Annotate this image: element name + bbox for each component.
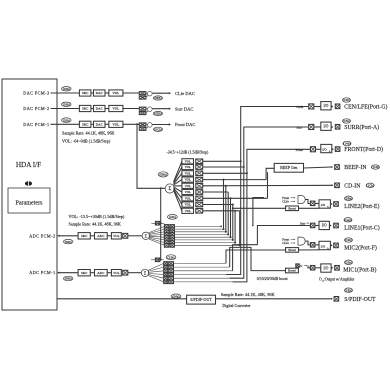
label mic select — [296, 264, 308, 268]
node (09h) stream id — [63, 239, 73, 243]
node (14h) — [343, 141, 351, 145]
svg-text:CLfe: CLfe — [282, 241, 289, 245]
pad BEEP-IN — [335, 165, 340, 170]
node (02h) stream id — [62, 118, 72, 122]
svg-text:(15h): (15h) — [343, 119, 350, 123]
node (03h) stream id — [62, 102, 72, 106]
block SRC dac3 — [79, 90, 91, 96]
mute switch LINE1 — [310, 223, 315, 228]
sum node CLfe DAC — [146, 91, 152, 97]
wire mixer fan 4 — [174, 180, 182, 185]
svg-text:I/O: I/O — [322, 224, 327, 228]
wire bus drop 1 — [223, 180, 225, 231]
wire arrow — [330, 244, 332, 246]
svg-text:I/O: I/O — [324, 125, 329, 129]
block VOL ADC PCM-1 — [111, 270, 121, 276]
mute switch mix9 — [196, 209, 203, 214]
record select 22h input 6 — [149, 237, 234, 242]
wire mixer fan 9 — [174, 190, 182, 211]
svg-text:(16h): (16h) — [343, 98, 350, 102]
svg-text:(0Ch): (0Ch) — [154, 127, 161, 131]
svg-text:BEEP Gen: BEEP Gen — [280, 165, 297, 170]
wire DAC PCM-3 to SRC — [51, 92, 80, 94]
wire fan row9 MIC1 feed — [203, 210, 240, 212]
block SRC dac2 — [79, 105, 91, 111]
svg-text:Surr: Surr — [296, 126, 303, 130]
wire to record selector — [128, 235, 142, 237]
svg-text:(22h): (22h) — [169, 215, 176, 219]
node (16h) — [343, 98, 351, 102]
mute switch ADC PCM-2 — [123, 233, 128, 238]
wire — [107, 235, 111, 237]
wire bus drop 4 — [230, 198, 232, 238]
block VOL ADC PCM-2 — [111, 233, 121, 239]
wire Front playback riser — [233, 149, 311, 282]
block SRC dac1 — [79, 121, 91, 127]
wire fan row4 to BEEP gen input — [203, 168, 275, 180]
block VOL mix1 — [182, 159, 194, 164]
mute switch mix8 — [196, 202, 203, 207]
mute switch pair Surr DAC — [139, 107, 146, 110]
node (1Ah) — [344, 218, 352, 222]
svg-text:VOL: VOL — [185, 171, 191, 175]
svg-text:DAC: DAC — [96, 91, 104, 95]
svg-text:VOL: VOL — [185, 196, 191, 200]
wire CLfe playback riser — [226, 107, 309, 275]
wire mixer fan 7 — [174, 188, 182, 198]
svg-text:LINE1(Port-C): LINE1(Port-C) — [344, 224, 379, 231]
wire mixer fan 8 — [174, 189, 182, 204]
node (0Bh) mixer id — [158, 172, 168, 177]
wire mixer fan 3 — [174, 173, 182, 184]
node (22h) record select id — [168, 215, 178, 220]
wire mixer fan 1 — [174, 161, 182, 182]
svg-text:(23h): (23h) — [168, 255, 175, 259]
wire fan row1 to CLfe riser — [203, 160, 242, 162]
wire MIC2 boost line — [286, 249, 319, 251]
wire — [314, 106, 321, 108]
pad SURR — [335, 125, 340, 130]
block VOL mix9 — [182, 208, 194, 213]
mixer 0Bh sum — [165, 184, 174, 193]
svg-text:ADC PCM-2: ADC PCM-2 — [29, 233, 55, 238]
wire — [315, 267, 321, 269]
block VOL mix5 — [182, 183, 194, 188]
wire DAC PCM-2 to SRC — [51, 108, 80, 110]
mute switch mix6 — [196, 190, 203, 195]
mute switch ADC PCM-1 — [123, 270, 128, 275]
svg-text:-34.5~+12dB (1.5dB/Step): -34.5~+12dB (1.5dB/Step) — [167, 151, 210, 155]
node (23h) record select id — [166, 255, 176, 260]
svg-text:LINE2(Port-E): LINE2(Port-E) — [344, 203, 379, 210]
svg-text:SRC: SRC — [81, 271, 88, 275]
wire mux out 2 — [305, 241, 310, 245]
block Boost LINE2 — [286, 206, 299, 211]
mux MIC2 monitor select — [298, 237, 305, 245]
wire fan row8 LINE2 feed — [203, 204, 234, 206]
svg-text:Σ: Σ — [168, 186, 171, 192]
block I/O Port-A — [321, 122, 331, 130]
wire fan row2 to Surr riser — [203, 166, 245, 168]
svg-text:A: A — [327, 206, 329, 209]
svg-text:VOL: VOL — [185, 209, 191, 213]
svg-text:ADC PCM-1: ADC PCM-1 — [29, 270, 55, 275]
wire — [315, 225, 319, 227]
block I/O Port-B — [321, 264, 331, 272]
node (0Eh) amp id — [153, 96, 162, 100]
node (19h) — [345, 238, 353, 242]
icon parameters eye — [25, 181, 32, 186]
svg-text:(08h): (08h) — [65, 277, 72, 281]
svg-text:VOL: -13.5~+30dB (1.5dB/Step): VOL: -13.5~+30dB (1.5dB/Step) — [69, 214, 125, 219]
block VOL dac1 — [109, 121, 123, 127]
svg-text:HDA I/F: HDA I/F — [16, 161, 41, 169]
svg-text:ADC: ADC — [97, 234, 105, 238]
wire fan row5 CD-IN line — [203, 185, 333, 187]
record select 23h input 6 — [148, 275, 242, 283]
svg-text:Front DAC: Front DAC — [175, 122, 195, 127]
wire bus drop 7 — [239, 211, 241, 247]
wire Front DAC tap into mixer — [136, 123, 165, 188]
wire — [90, 235, 94, 237]
svg-text::Output w/ Amplifier: :Output w/ Amplifier — [324, 277, 355, 281]
block SRC ADC PCM-1 — [78, 270, 90, 276]
wire — [315, 244, 319, 246]
svg-text:MIC2(Port-F): MIC2(Port-F) — [344, 245, 377, 252]
svg-text:(02h): (02h) — [63, 118, 70, 122]
wire — [105, 108, 109, 110]
svg-text:(14h): (14h) — [343, 142, 350, 146]
record select 22h input 5 — [149, 235, 232, 239]
mute switch mix4 — [196, 177, 203, 182]
svg-text:MIC1(Port-B): MIC1(Port-B) — [343, 266, 376, 273]
svg-text:VOL: VOL — [113, 271, 120, 275]
wire mixer fan 5 — [174, 185, 182, 187]
svg-text:SRC: SRC — [82, 123, 89, 127]
svg-text:VOL: VOL — [185, 159, 191, 163]
block ADC ADC PCM-1 — [95, 270, 108, 276]
svg-text:(18h): (18h) — [345, 261, 352, 265]
svg-text:ADC: ADC — [97, 271, 105, 275]
svg-text:0/10/20/30dB boost: 0/10/20/30dB boost — [257, 277, 289, 281]
svg-text:A: A — [329, 150, 331, 153]
mute switch CLfe out — [309, 104, 314, 109]
wire arrow to Surr DAC — [152, 108, 171, 110]
pad CEN/LFE — [335, 104, 340, 109]
mute switch mix1 — [196, 159, 203, 164]
svg-text:DAC PCM-1: DAC PCM-1 — [23, 122, 49, 127]
label CLfe mux input — [282, 200, 295, 204]
svg-text:I/O: I/O — [324, 104, 329, 108]
wire 23h row2 riser to MIC1 boost — [230, 247, 286, 270]
svg-text:(1Eh): (1Eh) — [345, 288, 353, 292]
svg-text:(1Ah): (1Ah) — [344, 218, 352, 222]
svg-text:Parameters: Parameters — [15, 201, 43, 207]
block DAC dac1 — [94, 121, 106, 127]
node (1Bh) — [345, 196, 353, 200]
block I/O-A Port-E — [319, 200, 330, 209]
label output amplifier note — [319, 277, 355, 282]
wire VOL to output mutes — [123, 108, 139, 110]
wire LINE1 input line — [257, 226, 310, 245]
wire bus drop 3 — [227, 192, 229, 236]
mute switch LINE2 — [310, 201, 315, 206]
record select 22h input 3 — [149, 230, 227, 235]
wire — [91, 123, 94, 125]
wire arrow — [332, 148, 334, 150]
svg-text:I/O: I/O — [322, 148, 327, 152]
svg-text:(06h): (06h) — [173, 294, 180, 298]
svg-text:Front: Front — [296, 148, 303, 152]
wire — [105, 123, 109, 125]
mute switch mix loopback 22h — [151, 221, 164, 225]
block VOL mix2 — [182, 164, 194, 169]
record select 23h input 5 — [148, 274, 239, 280]
wire arrow — [331, 126, 333, 128]
block HDA I/F host interface — [2, 79, 57, 310]
mute switch MIC2 — [310, 243, 315, 248]
wire 23h row3 riser — [233, 245, 258, 271]
wire — [91, 108, 94, 110]
block I/O Port-G — [321, 102, 331, 110]
node (1Dh) — [371, 165, 379, 169]
block VOL mix4 — [182, 177, 194, 182]
block VOL dac2 — [109, 105, 123, 111]
pad MIC2 — [334, 243, 339, 248]
block I/O Port-C — [319, 221, 329, 229]
node (0Dh) amp id — [153, 111, 162, 115]
wire — [316, 148, 321, 150]
block DAC dac3 — [94, 90, 106, 96]
svg-text:A: A — [327, 247, 329, 250]
pad FRONT — [335, 147, 340, 152]
mute switch mix3 — [196, 171, 203, 176]
block ADC ADC PCM-2 — [95, 233, 108, 239]
wire 23h row1 riser to MIC2 boost — [226, 250, 286, 263]
record select 22h input 8 — [149, 239, 241, 247]
svg-text:Surr DAC: Surr DAC — [175, 106, 193, 111]
node (06h) — [171, 294, 181, 298]
block VOL dac3 — [109, 90, 123, 96]
svg-text:VOL: VOL — [185, 190, 191, 194]
wire LINE2 mux feed riser — [252, 198, 264, 227]
node (18h) — [345, 260, 353, 264]
block I/O-A Port-F — [319, 241, 330, 250]
svg-text:VOL: VOL — [113, 234, 120, 238]
wire — [315, 203, 319, 205]
pad MIC1 — [335, 266, 340, 271]
svg-text:VOL: VOL — [185, 203, 191, 207]
block VOL mix3 — [182, 171, 194, 176]
record select 23h input 4 — [148, 273, 236, 276]
block Boost MIC1 — [286, 268, 299, 273]
pad LINE1 — [334, 223, 339, 228]
block SRC ADC PCM-2 — [78, 233, 90, 239]
label Surr mux input — [300, 221, 309, 225]
svg-text:Boost: Boost — [288, 269, 296, 273]
node (0Ch) amp id — [153, 127, 162, 131]
wire arrow — [331, 106, 333, 108]
mute switch Surr out — [309, 124, 314, 129]
label Front mux input — [282, 196, 295, 200]
svg-text:(1Dh): (1Dh) — [371, 165, 379, 169]
node (04h) stream id — [62, 87, 72, 91]
mixer 22h sum — [142, 232, 149, 239]
mute switch pair Front DAC — [139, 123, 146, 126]
pad S/PDIF-OUT — [334, 297, 339, 302]
svg-text:VOL: VOL — [112, 107, 119, 111]
record select 22h input 2 — [149, 227, 225, 233]
wire arrow — [329, 225, 331, 227]
svg-text:CLfe DAC: CLfe DAC — [175, 91, 195, 96]
svg-text:S/PDIF-OUT: S/PDIF-OUT — [190, 297, 212, 302]
pad CD-IN — [335, 183, 340, 188]
wire arrow to CLfe DAC — [152, 92, 171, 94]
block Parameters — [8, 188, 50, 213]
wire bus drop 6 — [234, 211, 236, 244]
wire mux out — [305, 200, 310, 204]
svg-text:CLfe: CLfe — [296, 105, 303, 109]
wire DAC PCM-1 to SRC — [51, 123, 80, 125]
record select 23h input 2 — [148, 265, 230, 271]
svg-text:VOL: VOL — [185, 165, 191, 169]
svg-text:DAC: DAC — [96, 123, 104, 127]
wire mixer fan 6 — [174, 187, 182, 192]
svg-text:SRC: SRC — [81, 234, 88, 238]
wire — [90, 272, 94, 274]
wire mixer fan 2 — [174, 167, 182, 183]
wire VOL to output mutes — [123, 92, 139, 94]
svg-text:BEEP-IN: BEEP-IN — [344, 165, 367, 171]
record select 23h input 1 — [148, 262, 226, 271]
label CLfe mux input 2 — [282, 241, 295, 245]
wire arrow — [330, 203, 332, 205]
mute switch mix7 — [196, 196, 203, 201]
mute switch mix5 — [196, 184, 203, 189]
svg-text:(0Dh): (0Dh) — [154, 112, 161, 116]
svg-text:I/O: I/O — [321, 245, 326, 249]
mute switch MIC1 — [310, 266, 315, 271]
wire arrow into ADC PCM-1 — [57, 272, 78, 274]
mixer 23h sum — [141, 269, 148, 276]
wire — [107, 272, 111, 274]
svg-text:VOL: VOL — [185, 178, 191, 182]
mute switch pair CLfe DAC — [139, 92, 146, 95]
svg-text:(09h): (09h) — [65, 240, 72, 244]
svg-text:(04h): (04h) — [63, 87, 70, 91]
wire SPDIF line — [57, 298, 332, 300]
wire bus drop 5 — [232, 205, 234, 241]
svg-text:CEN/LFE(Port-G): CEN/LFE(Port-G) — [344, 103, 387, 110]
mute switch mix loopback 23h — [151, 258, 164, 262]
block VOL mix8 — [182, 202, 194, 207]
svg-text:DAC PCM-2: DAC PCM-2 — [23, 106, 49, 111]
block DAC dac2 — [94, 105, 106, 111]
wire Surr playback riser — [230, 127, 309, 278]
block BEEP Gen — [274, 163, 303, 172]
svg-text:CLfe: CLfe — [282, 200, 289, 204]
block Boost MIC2 — [286, 248, 299, 253]
svg-text:S/PDIF-OUT: S/PDIF-OUT — [344, 297, 376, 303]
node (15h) — [343, 119, 351, 123]
svg-text:FRONT(Port-D): FRONT(Port-D) — [344, 146, 383, 153]
svg-text:SRC: SRC — [82, 91, 89, 95]
svg-text:VOL: VOL — [112, 91, 119, 95]
svg-text:VOL: VOL — [112, 123, 119, 127]
svg-text:(0Eh): (0Eh) — [154, 96, 161, 100]
svg-text:(19h): (19h) — [345, 238, 352, 242]
wire fan row6 — [203, 191, 229, 193]
mute switch Front out — [310, 147, 315, 152]
svg-text:Digital Converter: Digital Converter — [222, 303, 251, 308]
sum node Surr DAC — [146, 107, 152, 113]
label Front mux input 2 — [282, 238, 295, 242]
block I/O-A Port-D — [321, 144, 332, 153]
node mixer input junction — [160, 187, 162, 189]
svg-text:Boost: Boost — [288, 248, 296, 252]
svg-text:CD-IN: CD-IN — [344, 183, 361, 189]
svg-text:DAC: DAC — [96, 107, 104, 111]
wire to record selector — [128, 272, 142, 274]
wire — [105, 92, 109, 94]
svg-text:I/O: I/O — [324, 266, 329, 270]
svg-text:SURR(Port-A): SURR(Port-A) — [344, 124, 379, 131]
mux LINE2 monitor select — [298, 196, 305, 204]
wire arrow — [331, 267, 333, 269]
svg-text:(1Ch): (1Ch) — [366, 184, 374, 188]
wire fan row3 to Front riser — [203, 172, 248, 174]
pad LINE2 — [334, 202, 339, 207]
wire mixer out to record select — [160, 188, 162, 259]
svg-text:(03h): (03h) — [63, 103, 70, 107]
wire arrow CD — [331, 184, 333, 186]
record select 23h input 3 — [148, 269, 233, 272]
record select 22h input 7 — [149, 238, 236, 244]
wire LINE2 boost line — [232, 207, 319, 209]
block VOL mix6 — [182, 189, 194, 194]
svg-text:DAC PCM-3: DAC PCM-3 — [23, 91, 49, 96]
block S/PDIF-OUT converter — [187, 295, 216, 304]
wire VOL to output mutes — [123, 123, 139, 125]
wire — [314, 126, 321, 128]
wire bus drop 2 — [225, 186, 227, 233]
svg-text:I/O: I/O — [321, 203, 326, 207]
svg-text:(1Bh): (1Bh) — [345, 197, 353, 201]
node (1Ch) — [366, 183, 374, 187]
svg-text:SRC: SRC — [82, 107, 89, 111]
svg-text:VOL: -64~0dB (1.5dB/Step): VOL: -64~0dB (1.5dB/Step) — [62, 139, 111, 144]
sum node Front DAC — [146, 123, 152, 129]
node (1Eh) — [345, 288, 353, 292]
wire — [91, 92, 94, 94]
svg-text:(0Bh): (0Bh) — [159, 173, 166, 177]
svg-text:VOL: VOL — [185, 184, 191, 188]
record select 22h input 4 — [149, 233, 229, 237]
wire arrow SPDIF — [331, 298, 333, 300]
svg-text:Boost: Boost — [288, 207, 296, 211]
wire fan row7 to BEEP gen bottom — [203, 172, 268, 199]
svg-text:Surr: Surr — [300, 221, 306, 225]
wire mic stub — [308, 266, 310, 268]
block VOL mix7 — [182, 196, 194, 201]
wire BEEP to pad — [304, 166, 334, 168]
node (08h) stream id — [63, 276, 73, 280]
record select 22h input 1 — [149, 225, 222, 233]
wire arrow to Front DAC — [152, 123, 171, 125]
mute switch mix2 — [196, 165, 203, 170]
wire arrow into ADC PCM-2 — [57, 235, 78, 237]
